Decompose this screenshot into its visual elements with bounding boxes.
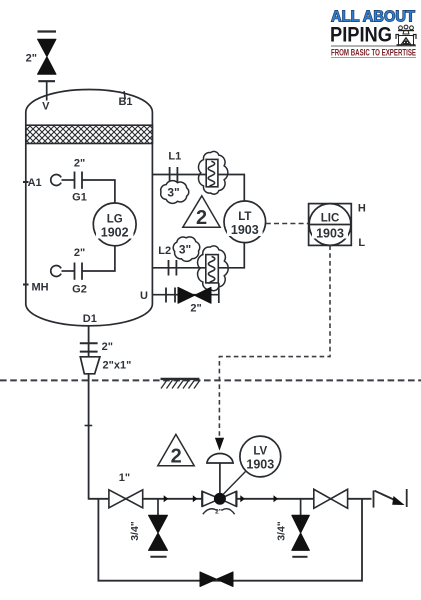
svg-text:L1: L1 [168,151,181,163]
svg-text:U: U [140,290,148,302]
drain valve 2in (solid) [178,287,211,303]
wire G1 to LG [82,180,115,203]
flow arrow 3 [240,495,245,502]
svg-text:1903: 1903 [246,458,274,472]
vent open-end bar [38,30,57,32]
signal arrow [215,438,224,451]
wire G1 to flange [62,179,75,181]
flange pair G2 [75,263,83,280]
flange pair U [166,288,175,303]
flow arrow 2 [193,495,198,502]
line end tick [373,490,375,507]
svg-text:3/4": 3/4" [276,521,288,541]
size cloud 3in lower [173,237,200,261]
drain cap 1 [150,556,166,558]
outlet pipe from D1 [88,326,90,500]
wire L2 tap [152,243,244,268]
svg-text:2: 2 [196,207,207,229]
control valve LV body [202,491,237,507]
svg-text:2": 2" [74,158,85,170]
controller LIC 1903 [309,204,352,246]
end bar [406,489,408,507]
main line [89,498,372,500]
svg-text:2": 2" [74,247,85,259]
gate valve 2 [314,489,348,508]
gauge connection C (G1) [51,175,61,186]
svg-text:L2: L2 [158,245,171,257]
svg-text:B1: B1 [118,96,132,108]
svg-text:3": 3" [179,243,191,257]
drain valve 1 (solid 3/4in) [149,515,168,550]
vent nozzle stem V [46,81,48,100]
reducer 2x1 [80,357,100,374]
svg-text:2": 2" [190,303,201,315]
bypass line [98,499,362,581]
note triangle 2 upper [183,196,220,229]
svg-text:1903: 1903 [316,227,344,241]
svg-text:A1: A1 [28,177,42,189]
dashed signal LIC to LV [219,245,330,437]
flange pair G1 [75,172,83,189]
vessel top head [26,90,153,112]
drain leg 1 [157,499,159,516]
svg-text:1902: 1902 [101,226,129,240]
svg-text:L: L [358,237,365,249]
svg-text:LG: LG [107,214,123,226]
logo rule lower [331,57,416,59]
seal element lower [206,255,219,284]
svg-text:2": 2" [26,53,37,65]
dashed signal LT to LIC [266,223,309,225]
gauge connection C (G2) [51,266,61,277]
chamber drain stub [218,283,220,303]
grade hatch symbol [161,379,201,389]
svg-text:1903: 1903 [231,223,259,237]
seal element upper [206,159,218,187]
svg-text:G2: G2 [72,284,87,296]
svg-text:2": 2" [102,341,113,353]
level gauge LG 1902 [93,203,136,246]
svg-text:1": 1" [119,472,130,484]
svg-text:2"x1": 2"x1" [103,360,132,372]
flange pair D1 [80,343,98,351]
nozzle tick MH [23,284,29,286]
svg-text:G1: G1 [72,192,87,204]
svg-text:2: 2 [171,446,182,468]
control valve arcs [203,509,235,515]
gate valve 1 [109,490,143,508]
nozzle tick A1 [23,181,29,183]
demister pad (crosshatch band) [26,125,153,143]
svg-text:2": 2" [215,509,222,516]
svg-text:H: H [358,203,366,215]
tag LV 1903 [223,436,281,494]
wire L1 tap [152,175,244,202]
logo mascot icon [396,25,416,45]
wire U drain [152,294,218,296]
drain cap 2 [292,556,307,558]
wire G2 to C [62,270,75,272]
svg-text:3": 3" [167,186,179,200]
actuator diaphragm [207,454,233,463]
vessel shell walls [26,112,153,304]
svg-text:LV: LV [253,446,267,458]
svg-text:V: V [42,101,50,113]
svg-text:PIPING: PIPING [330,23,392,47]
drain valve 2 (solid 3/4in) [292,515,310,550]
actuator stem [219,463,221,493]
flange pair L1 [170,167,178,182]
flow arrow 1 [164,495,169,502]
wire LG to G2 [82,246,115,271]
drain leg 2 [300,499,302,516]
bypass valve (solid) [200,572,233,587]
continuation arrow [375,491,405,505]
vent flange bar [38,80,55,82]
level transmitter LT 1903 [224,201,266,243]
note triangle 2 lower [158,434,194,467]
flange pair L2 [169,260,177,276]
nozzle tick B1 [124,91,125,99]
flow arrow 4 [274,495,279,502]
logo rule [331,45,416,47]
svg-text:LIC: LIC [321,213,340,225]
grade dashed line [0,379,421,381]
seal chamber cloud lower [198,246,229,291]
svg-text:FROM BASIC TO EXPERTISE: FROM BASIC TO EXPERTISE [331,48,416,58]
size cloud 3in upper [161,181,189,204]
vent gate valve 2in (solid) [38,39,57,74]
seal chamber cloud upper [198,151,227,194]
svg-text:LT: LT [238,211,251,223]
svg-text:MH: MH [31,282,48,294]
vessel bottom head [26,304,153,326]
svg-text:D1: D1 [83,313,97,325]
svg-text:3/4": 3/4" [129,521,141,541]
weld tick on outlet [85,425,93,427]
